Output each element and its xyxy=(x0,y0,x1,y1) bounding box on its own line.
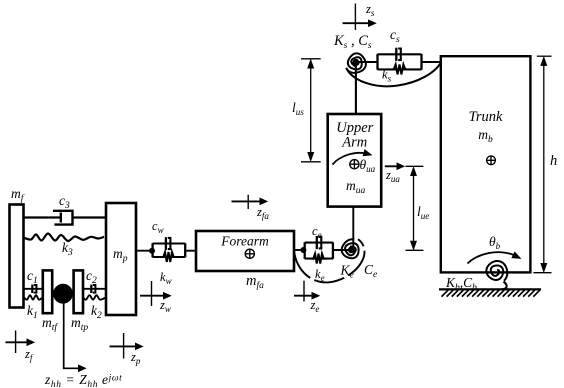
svg-text:Forearm: Forearm xyxy=(220,234,269,249)
spring k_w xyxy=(162,252,175,262)
svg-text:Ks , Cs: Ks , Cs xyxy=(333,33,372,51)
excitation arrow xyxy=(79,365,86,371)
dimension l_us xyxy=(301,58,321,60)
mass forearm box xyxy=(196,231,294,271)
elbow torsion spring K_e C_e (spiral) xyxy=(342,239,359,258)
axis z_e xyxy=(294,295,313,297)
spring k1 xyxy=(24,295,43,299)
upper arm CG symbol xyxy=(350,160,359,169)
wire forearm to elbow xyxy=(294,249,305,251)
rotation arrow theta_b xyxy=(468,252,515,263)
damper c3 xyxy=(24,216,61,218)
trunk torsion spring K_b C_b (spiral with tail) xyxy=(486,261,507,281)
wire wrist to forearm xyxy=(185,250,196,252)
axis z_f xyxy=(6,341,29,343)
wire upper arm to shoulder spiral xyxy=(355,63,357,115)
wire elbow to joint spiral xyxy=(333,249,351,251)
damper c_s xyxy=(395,48,397,61)
wire palm to wrist xyxy=(136,250,153,252)
mass m_tf xyxy=(43,270,52,313)
axis z_fa xyxy=(232,200,261,202)
wire shoulder box to trunk xyxy=(422,61,442,63)
wire spiral to shoulder box xyxy=(356,61,378,63)
damper c2 xyxy=(83,288,106,290)
dimension h xyxy=(537,55,552,57)
elbow spring-damper frame xyxy=(304,242,306,259)
mass m_f (fingers) xyxy=(10,205,24,308)
ground line xyxy=(439,288,541,290)
svg-text:h: h xyxy=(550,153,557,169)
trunk CG symbol xyxy=(487,156,496,165)
ground hatching xyxy=(442,290,540,296)
shoulder torsion spring (spiral) xyxy=(347,53,365,72)
spring k3 xyxy=(24,234,104,242)
svg-text:Trunk: Trunk xyxy=(469,109,503,125)
mass upper arm box xyxy=(328,114,382,207)
mass trunk box xyxy=(441,56,531,272)
damper c1 xyxy=(24,288,43,290)
wire elbow spiral to upper arm xyxy=(352,207,354,248)
mass m_p (palm) xyxy=(106,203,136,315)
axis z_ua xyxy=(385,165,398,167)
junction dot (wrist) xyxy=(150,248,155,253)
axis z_w xyxy=(140,295,164,297)
wrist spring-damper frame xyxy=(151,243,153,257)
forearm-elbow link curve xyxy=(294,239,364,282)
axis z_p xyxy=(110,345,137,347)
damper c_w xyxy=(165,237,167,250)
handle (black circle) xyxy=(54,284,73,303)
forearm CG symbol xyxy=(245,249,254,258)
shoulder spring-damper frame xyxy=(376,54,378,70)
axis z_s xyxy=(343,22,369,24)
spring k_s xyxy=(392,64,407,74)
spring k_e xyxy=(312,254,325,264)
dimension l_ue xyxy=(406,165,424,167)
spring k2 xyxy=(83,295,106,299)
svg-text:Arm: Arm xyxy=(341,135,367,151)
excitation wire from handle xyxy=(64,298,80,368)
mass m_tp xyxy=(74,270,83,313)
rotation arrow theta_ua xyxy=(333,153,367,165)
junction dot (elbow) xyxy=(301,248,306,253)
damper c_e xyxy=(316,236,318,249)
shoulder-trunk link curve xyxy=(346,63,441,87)
